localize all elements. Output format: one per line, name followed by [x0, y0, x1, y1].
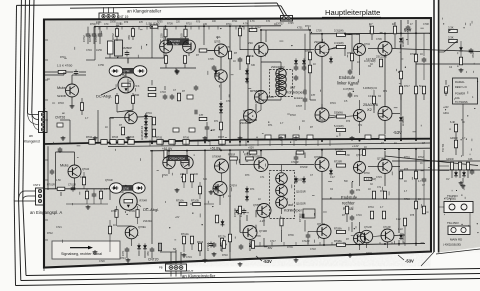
svg-text:R718: R718 — [290, 114, 296, 117]
svg-text:R72: R72 — [214, 193, 219, 196]
svg-text:Q707A: Q707A — [230, 185, 238, 188]
svg-text:R702: R702 — [86, 136, 93, 139]
svg-text:+0V: +0V — [175, 216, 180, 219]
svg-text:DC-Abgl.: DC-Abgl. — [96, 94, 112, 99]
svg-text:Q70-R: Q70-R — [82, 168, 89, 171]
svg-text:Q703: Q703 — [214, 40, 221, 44]
svg-text:Q701R: Q701R — [105, 179, 113, 182]
svg-text:Endstufe: Endstufe — [339, 75, 356, 80]
svg-text:C702: C702 — [82, 35, 86, 42]
svg-text:C717: C717 — [270, 240, 276, 243]
svg-text:Q702: Q702 — [255, 101, 262, 104]
svg-text:0.47: 0.47 — [368, 95, 373, 98]
svg-text:R713: R713 — [197, 241, 204, 244]
svg-text:Q1002R: Q1002R — [296, 202, 306, 206]
svg-text:RM80P: RM80P — [123, 46, 132, 50]
svg-text:CNT 19: CNT 19 — [117, 15, 128, 19]
svg-text:R701: R701 — [60, 56, 66, 59]
svg-text:1.5K: 1.5K — [56, 179, 61, 182]
svg-text:-53V: -53V — [263, 259, 272, 264]
svg-text:1K: 1K — [364, 146, 367, 149]
svg-text:C46: C46 — [468, 158, 473, 161]
svg-text:R704: R704 — [146, 112, 152, 115]
svg-text:R71: R71 — [354, 96, 359, 98]
svg-text:2SC2240: 2SC2240 — [314, 40, 325, 44]
svg-text:R709A: R709A — [334, 228, 342, 231]
svg-text:IN: IN — [120, 23, 123, 26]
svg-text:3.3(1W): 3.3(1W) — [334, 41, 344, 45]
svg-text:C719: C719 — [186, 256, 192, 259]
svg-text:CNT26: CNT26 — [55, 116, 65, 120]
svg-text:R75: R75 — [410, 215, 415, 217]
svg-text:R709: R709 — [167, 23, 173, 26]
svg-text:Q700A Q700A: Q700A Q700A — [170, 158, 186, 161]
svg-text:0.47: 0.47 — [330, 176, 335, 179]
svg-text:R742: R742 — [47, 232, 53, 235]
svg-text:MPS8423: MPS8423 — [250, 89, 262, 93]
svg-text:R741: R741 — [120, 257, 126, 260]
svg-text:0.47(.5W): 0.47(.5W) — [366, 179, 376, 181]
svg-text:4.7: 4.7 — [369, 22, 373, 26]
svg-text:LN4002: LN4002 — [401, 233, 405, 243]
svg-text:Klangeinst: Klangeinst — [24, 140, 40, 144]
svg-text:C721: C721 — [56, 226, 62, 229]
svg-text:Sk30B: Sk30B — [57, 94, 66, 98]
svg-text:Signalweg, rechter Kanal: Signalweg, rechter Kanal — [61, 252, 102, 256]
svg-text:-1.2V: -1.2V — [259, 220, 265, 223]
svg-text:R717A: R717A — [218, 236, 226, 239]
svg-text:R76: R76 — [404, 169, 409, 171]
svg-text:1K: 1K — [47, 78, 50, 81]
svg-text:R708: R708 — [111, 210, 117, 213]
svg-text:3.3K: 3.3K — [448, 36, 454, 40]
svg-text:DC-Abgl.: DC-Abgl. — [143, 207, 159, 212]
svg-text:+52V: +52V — [248, 147, 254, 150]
svg-text:1K: 1K — [368, 188, 371, 191]
svg-text:OUT: OUT — [187, 269, 194, 273]
svg-text:0.22: 0.22 — [398, 228, 403, 231]
svg-text:1K: 1K — [462, 121, 465, 124]
svg-text:Kühlkörper: Kühlkörper — [284, 209, 303, 213]
svg-text:+51.8V: +51.8V — [210, 146, 221, 150]
svg-text:0.47(5W): 0.47(5W) — [343, 87, 354, 91]
svg-text:R73: R73 — [245, 174, 250, 177]
svg-text:R733: R733 — [404, 198, 410, 201]
svg-text:1K: 1K — [105, 126, 108, 129]
svg-text:R736: R736 — [288, 234, 294, 237]
svg-text:100: 100 — [180, 33, 184, 38]
svg-text:R709: R709 — [129, 210, 135, 213]
svg-text:2SD1000X2: 2SD1000X2 — [271, 66, 285, 69]
svg-text:1K: 1K — [113, 224, 116, 227]
svg-text:R711: R711 — [226, 23, 232, 26]
svg-text:330: 330 — [251, 64, 256, 67]
svg-text:C701R: C701R — [68, 184, 76, 187]
svg-text:R704R: R704R — [140, 200, 148, 203]
svg-text:Q714R: Q714R — [377, 157, 385, 161]
svg-text:5K: 5K — [419, 85, 422, 88]
svg-text:C71: C71 — [260, 176, 265, 179]
svg-text:47K: 47K — [127, 35, 131, 40]
svg-text:R710B: R710B — [191, 199, 199, 202]
svg-text:Q708R: Q708R — [317, 223, 325, 226]
svg-text:R705: R705 — [156, 137, 163, 140]
svg-text:K701: K701 — [297, 27, 303, 30]
svg-text:R723A: R723A — [219, 242, 223, 251]
svg-text:R703: R703 — [58, 102, 64, 105]
svg-text:TO TRANS: TO TRANS — [455, 101, 468, 104]
svg-text:1.5 K: 1.5 K — [133, 84, 140, 88]
svg-text:Kühlkörper: Kühlkörper — [286, 91, 305, 95]
svg-text:G700AR: G700AR — [212, 156, 221, 159]
svg-text:C701: C701 — [96, 22, 102, 24]
svg-text:an Klangeinsteller: an Klangeinsteller — [182, 274, 216, 279]
svg-text:R71: R71 — [214, 120, 219, 123]
svg-text:Q704: Q704 — [364, 43, 371, 46]
svg-text:C718: C718 — [310, 248, 316, 251]
svg-text:C704R: C704R — [233, 208, 237, 217]
svg-text:0.47(.5W): 0.47(.5W) — [366, 59, 376, 61]
svg-text:DE9V U-K: DE9V U-K — [455, 85, 467, 89]
svg-text:R705: R705 — [157, 22, 163, 24]
svg-text:R739: R739 — [287, 246, 293, 249]
svg-text:T5A250V: T5A250V — [447, 194, 458, 198]
svg-text:Q705R: Q705R — [253, 204, 261, 207]
svg-text:C705: C705 — [208, 58, 214, 61]
svg-text:R73: R73 — [346, 121, 351, 123]
svg-text:C706: C706 — [376, 38, 382, 41]
svg-text:2SC2240: 2SC2240 — [316, 119, 327, 122]
svg-text:R710: R710 — [186, 23, 192, 26]
svg-text:R731: R731 — [404, 156, 410, 159]
svg-text:CNT17: CNT17 — [276, 23, 284, 26]
svg-text:G460R: G460R — [450, 137, 458, 140]
svg-text:-53V: -53V — [405, 259, 414, 264]
svg-text:C705: C705 — [316, 30, 322, 33]
svg-text:R71: R71 — [268, 124, 273, 127]
svg-text:1K: 1K — [233, 60, 236, 63]
svg-text:220: 220 — [160, 33, 164, 38]
svg-text:R70: R70 — [196, 21, 201, 23]
svg-text:R712: R712 — [255, 26, 261, 29]
svg-text:R708A: R708A — [334, 240, 342, 243]
svg-text:Q700R: Q700R — [252, 156, 260, 159]
svg-text:R715: R715 — [347, 52, 353, 55]
svg-text:C712R: C712R — [302, 240, 310, 243]
svg-text:Endabst.: Endabst. — [294, 97, 304, 100]
svg-text:2SC2240: 2SC2240 — [376, 55, 387, 59]
svg-text:6.4R5W(1)X2: 6.4R5W(1)X2 — [363, 88, 378, 90]
svg-text:C70: C70 — [226, 100, 231, 103]
svg-text:BL X2: BL X2 — [172, 43, 179, 46]
svg-text:R740: R740 — [222, 254, 228, 257]
svg-text:Q700: Q700 — [124, 70, 131, 73]
svg-text:470: 470 — [146, 251, 150, 256]
svg-text:47K: 47K — [139, 22, 144, 24]
svg-text:C704: C704 — [86, 49, 92, 52]
svg-text:C710A: C710A — [206, 242, 210, 251]
svg-text:C71: C71 — [358, 125, 363, 127]
svg-text:C715: C715 — [376, 176, 382, 179]
svg-text:2SC: 2SC — [248, 41, 253, 45]
svg-text:G460R: G460R — [446, 158, 454, 161]
svg-text:Q700: Q700 — [123, 187, 130, 190]
svg-text:47P: 47P — [311, 94, 316, 97]
svg-text:R716: R716 — [410, 53, 416, 56]
svg-text:3.3K: 3.3K — [448, 26, 454, 30]
svg-text:CNT20: CNT20 — [148, 258, 159, 262]
svg-text:5.0(1W): 5.0(1W) — [334, 124, 344, 128]
svg-text:530(W): 530(W) — [334, 111, 343, 115]
svg-text:2SA: 2SA — [216, 36, 221, 39]
svg-text:rechter: rechter — [342, 201, 355, 206]
svg-text:linker Kanal: linker Kanal — [337, 81, 358, 86]
svg-text:4.7K: 4.7K — [243, 23, 248, 26]
svg-text:1K: 1K — [313, 63, 316, 66]
svg-text:1K: 1K — [228, 195, 231, 198]
svg-text:POWER: POWER — [455, 92, 465, 96]
svg-text:R732: R732 — [418, 156, 424, 159]
svg-text:R738: R738 — [366, 252, 372, 255]
svg-text:3.3(1W): 3.3(1W) — [334, 29, 344, 33]
svg-text:1K: 1K — [420, 163, 423, 165]
svg-text:CNT2: CNT2 — [33, 183, 41, 187]
svg-text:C705: C705 — [288, 23, 294, 25]
svg-text:LN4002: LN4002 — [401, 116, 405, 126]
svg-text:47/50: 47/50 — [98, 64, 105, 67]
svg-text:R73: R73 — [380, 190, 385, 193]
svg-text:TO TR: TO TR — [441, 144, 445, 152]
svg-text:R729R: R729R — [334, 161, 342, 164]
svg-text:2SK30A: 2SK30A — [143, 220, 152, 223]
svg-text:10/50: 10/50 — [96, 49, 103, 52]
svg-text:R717: R717 — [404, 85, 410, 88]
svg-text:R719: R719 — [330, 102, 336, 105]
svg-text:0.22: 0.22 — [396, 219, 401, 221]
svg-text:-58V: -58V — [267, 247, 273, 250]
svg-text:R730: R730 — [364, 172, 370, 175]
svg-text:R711: R711 — [232, 21, 238, 23]
svg-text:C703: C703 — [160, 91, 166, 94]
svg-text:C70: C70 — [121, 250, 125, 256]
svg-text:R712A: R712A — [181, 233, 189, 236]
svg-text:-60KE: -60KE — [246, 54, 254, 58]
svg-text:C71: C71 — [377, 187, 382, 189]
svg-text:R726R: R726R — [300, 166, 308, 169]
svg-text:G661: G661 — [443, 112, 450, 115]
svg-text:an Eingangspl. A: an Eingangspl. A — [30, 210, 62, 215]
svg-text:Q717: Q717 — [356, 155, 362, 157]
svg-text:6.4K: 6.4K — [450, 121, 455, 124]
svg-text:C711R: C711R — [298, 214, 302, 223]
svg-text:X2: X2 — [367, 107, 372, 112]
svg-text:R72: R72 — [383, 91, 388, 93]
svg-text:C720: C720 — [99, 260, 105, 263]
svg-text:C70: C70 — [104, 23, 109, 26]
svg-text:R71: R71 — [305, 50, 310, 53]
svg-text:MAIN RD: MAIN RD — [450, 238, 462, 242]
svg-text:R74: R74 — [250, 188, 255, 191]
svg-text:Q709A: Q709A — [138, 226, 146, 229]
svg-text:+24V: +24V — [443, 106, 449, 109]
svg-text:Mute: Mute — [57, 85, 66, 90]
svg-text:1K: 1K — [302, 120, 305, 123]
svg-text:RADIAL: RADIAL — [455, 80, 465, 84]
svg-text:47/50: 47/50 — [80, 176, 87, 179]
svg-text:220: 220 — [203, 23, 208, 26]
svg-text:R703: R703 — [112, 136, 119, 139]
svg-text:Hauptleiterplatte: Hauptleiterplatte — [325, 8, 380, 17]
svg-text:( 4002)(1B)(0D): ( 4002)(1B)(0D) — [443, 243, 461, 247]
svg-text:C716: C716 — [356, 214, 362, 217]
svg-text:4700: 4700 — [133, 93, 140, 97]
svg-text:LN4002: LN4002 — [401, 37, 405, 47]
svg-text:C703: C703 — [94, 35, 98, 42]
svg-text:an Klangeinsteller: an Klangeinsteller — [127, 9, 162, 14]
svg-text:Q712R: Q712R — [364, 226, 372, 229]
svg-text:330: 330 — [203, 178, 208, 181]
svg-text:47P: 47P — [199, 114, 204, 117]
svg-text:R706: R706 — [183, 137, 190, 140]
svg-text:1K: 1K — [404, 180, 407, 183]
svg-text:PB: PB — [159, 266, 163, 270]
svg-text:Mute: Mute — [60, 163, 69, 168]
svg-text:GR: GR — [120, 191, 124, 194]
svg-text:R74: R74 — [356, 190, 361, 192]
svg-text:R701R: R701R — [228, 155, 235, 157]
svg-text:1K: 1K — [394, 142, 397, 145]
svg-text:Q1001R: Q1001R — [296, 190, 306, 194]
svg-text:10A: 10A — [455, 96, 460, 100]
svg-text:4.7K: 4.7K — [250, 21, 255, 23]
svg-text:K70: K70 — [266, 21, 271, 23]
svg-text:an: an — [29, 134, 33, 138]
svg-text:R70: R70 — [124, 22, 129, 24]
svg-text:Q710R: Q710R — [259, 230, 267, 233]
svg-text:R720: R720 — [162, 174, 168, 177]
svg-text:OV: OV — [446, 178, 450, 181]
svg-text:220: 220 — [180, 173, 185, 176]
svg-text:+1.2V: +1.2V — [352, 145, 359, 148]
svg-text:970: 970 — [226, 46, 231, 49]
svg-text:LN4148 X4: LN4148 X4 — [140, 126, 144, 140]
svg-text:100: 100 — [194, 173, 199, 176]
svg-text:R735: R735 — [255, 235, 261, 238]
svg-text:1K: 1K — [420, 53, 423, 56]
svg-text:10/50: 10/50 — [110, 22, 116, 24]
svg-text:NF: NF — [173, 248, 177, 251]
svg-text:R734: R734 — [368, 206, 374, 209]
svg-text:3.3K: 3.3K — [345, 154, 350, 157]
svg-text:Q706R: Q706R — [314, 156, 322, 159]
svg-text:1.5 K 47/50: 1.5 K 47/50 — [57, 64, 73, 68]
svg-text:47/3: 47/3 — [471, 52, 475, 58]
svg-text:C708: C708 — [423, 23, 429, 26]
svg-text:R728R: R728R — [335, 148, 343, 151]
svg-text:Q713R: Q713R — [383, 226, 391, 229]
svg-text:C707: C707 — [296, 105, 303, 108]
svg-text:R702: R702 — [111, 33, 115, 40]
svg-text:R710A: R710A — [176, 199, 184, 202]
svg-text:10/50: 10/50 — [88, 35, 92, 42]
svg-text:T5A 250V: T5A 250V — [447, 221, 459, 225]
svg-text:C710R: C710R — [291, 161, 299, 164]
